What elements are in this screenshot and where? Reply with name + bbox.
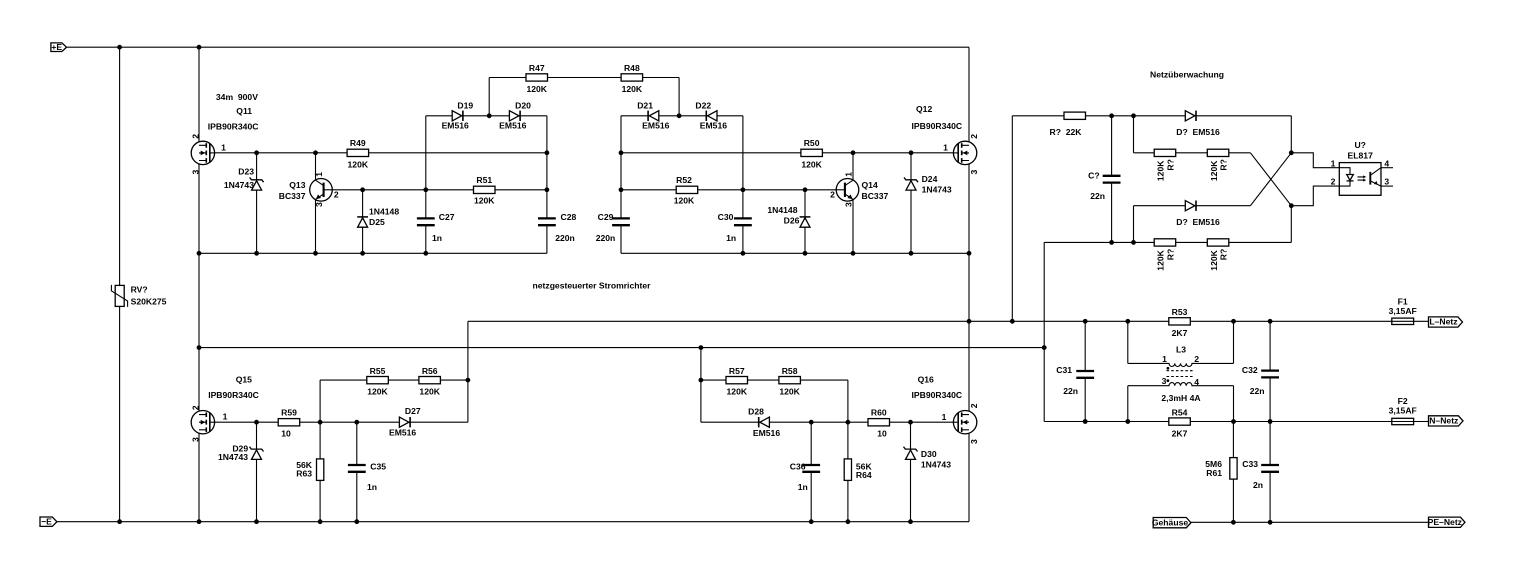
junction gate2R/R64 [846, 420, 851, 425]
svg-text:C27: C27 [439, 212, 455, 222]
svg-text:D24: D24 [922, 174, 938, 184]
mosfet Q15 [191, 411, 214, 434]
svg-text:1: 1 [942, 412, 947, 422]
svg-text:3: 3 [1162, 376, 1167, 386]
svg-text:1n: 1n [432, 233, 442, 243]
svg-text:netzgesteuerter Stromrichter: netzgesteuerter Stromrichter [533, 281, 652, 291]
junction -E/Q15S [197, 519, 202, 524]
capacitor C33 [1261, 465, 1279, 472]
diode D26 [800, 217, 811, 227]
svg-text:1: 1 [223, 412, 228, 422]
svg-text:C31: C31 [1056, 365, 1072, 375]
svg-text:R56: R56 [422, 366, 438, 376]
resistor R? 120K bottom-right [1207, 239, 1229, 246]
svg-text:C36: C36 [790, 462, 806, 472]
transistor Q13 [310, 179, 333, 202]
wire Q11 gate row [215, 152, 547, 154]
svg-text:R53: R53 [1172, 307, 1188, 317]
junction gateR/D24 [909, 150, 914, 155]
capacitor C? [1103, 176, 1121, 183]
svg-text:3,15AF: 3,15AF [1389, 406, 1417, 416]
junction gate/C28 node [545, 150, 550, 155]
svg-text:1N4743: 1N4743 [224, 180, 254, 190]
svg-text:2: 2 [190, 405, 200, 410]
svg-text:D23: D23 [238, 167, 254, 177]
fuse F1 [1392, 318, 1414, 324]
svg-text:120K: 120K [474, 196, 495, 206]
wire D24 branch [910, 153, 912, 254]
junction cross node X1 [1289, 150, 1294, 155]
wire crossing diagonal a [1250, 153, 1291, 206]
svg-text:+E: +E [51, 42, 62, 52]
svg-text:Q16: Q16 [918, 374, 934, 384]
junction railR/D26 [803, 251, 808, 256]
svg-text:L3: L3 [1176, 344, 1186, 354]
resistor R56 [419, 377, 441, 384]
wire opto pin4 stub [1381, 167, 1393, 169]
svg-text:22n: 22n [1063, 386, 1078, 396]
junction railR/D24 [909, 251, 914, 256]
junction gate2R/D30 [908, 420, 913, 425]
wire Q14 collector [852, 153, 854, 180]
junction out1/L3r [1231, 319, 1236, 324]
junction baseR/C30 [741, 187, 746, 192]
diode D21 [648, 111, 659, 121]
resistor R63 [317, 459, 324, 481]
svg-text:D21: D21 [637, 101, 653, 111]
junction out1/L3 [1125, 319, 1130, 324]
resistor R50 [801, 149, 823, 156]
svg-text:1: 1 [1331, 158, 1336, 168]
resistor R? 120K top-left [1154, 149, 1176, 156]
svg-text:EM516: EM516 [753, 428, 780, 438]
diode D28 [759, 417, 770, 427]
optocoupler U? LED [1339, 168, 1353, 186]
svg-text:120K: 120K [1156, 249, 1166, 270]
wire Q12-Q16 drain/source column [968, 47, 970, 522]
resistor R? 120K bottom-left [1154, 239, 1176, 246]
wire Q13 base row [332, 189, 547, 191]
resistor R61 [1230, 458, 1237, 480]
wire R57-R58 row [701, 379, 848, 381]
wire C28 column [546, 116, 548, 254]
inductor L3 phase dots [1167, 367, 1170, 370]
junction out2/R57 riser [699, 345, 704, 350]
svg-text:EM516: EM516 [442, 120, 469, 130]
svg-text:IPB90R340C: IPB90R340C [208, 122, 259, 132]
svg-text:R63: R63 [296, 469, 312, 479]
junction gateR/Q14C [851, 150, 856, 155]
svg-text:10: 10 [281, 428, 291, 438]
junction railL/D25 [360, 251, 365, 256]
wire C27 column [425, 116, 427, 254]
svg-text:4: 4 [1384, 158, 1389, 168]
mosfet Q12 [953, 141, 976, 164]
svg-text:120K: 120K [1209, 160, 1219, 181]
optocoupler U? light arrows [1358, 175, 1367, 181]
wire monitor 120K top row [1134, 116, 1251, 153]
junction base/C27 [423, 187, 428, 192]
svg-text:1: 1 [314, 172, 324, 177]
wire monitor left riser to N [1043, 242, 1045, 421]
svg-text:R64: R64 [856, 470, 872, 480]
svg-text:10: 10 [877, 428, 887, 438]
resistor R53 [1169, 318, 1191, 325]
net flag Gehaeuse [1152, 517, 1191, 528]
svg-text:Q15: Q15 [236, 375, 252, 385]
svg-text:120K: 120K [1209, 249, 1219, 270]
svg-text:2: 2 [334, 189, 339, 199]
wire Q16 gate row [701, 421, 953, 423]
svg-text:S20K275: S20K275 [131, 297, 167, 307]
svg-text:1: 1 [943, 143, 948, 153]
junction +E/RV2 [117, 45, 122, 50]
wire C? column [1111, 116, 1113, 243]
svg-text:Q11: Q11 [236, 106, 252, 116]
diode D? lower EM516 [1185, 201, 1196, 211]
svg-text:Q13: Q13 [289, 180, 305, 190]
svg-text:D19: D19 [457, 101, 473, 111]
wire R56 to output1 riser [467, 321, 469, 422]
wire +E rail [67, 46, 970, 48]
junction -E/R64 [846, 519, 851, 524]
svg-text:R48: R48 [624, 63, 640, 73]
junction monitor bot/diode [1131, 240, 1136, 245]
junction out2/Q15D [197, 345, 202, 350]
junction N/C32 [1268, 419, 1273, 424]
wire C29 column [620, 116, 622, 254]
svg-text:IPB90R340C: IPB90R340C [912, 390, 963, 400]
svg-text:2: 2 [1331, 177, 1336, 187]
svg-text:EM516: EM516 [389, 427, 416, 437]
svg-text:3: 3 [190, 437, 200, 442]
svg-text:R58: R58 [782, 366, 798, 376]
svg-text:IPB90R340C: IPB90R340C [208, 390, 259, 400]
svg-text:1N4148: 1N4148 [767, 205, 797, 215]
junction N/L3 [1125, 419, 1130, 424]
junction -E/RV2 [117, 519, 122, 524]
svg-text:EM516: EM516 [642, 120, 669, 130]
junction railL/Q11S [197, 251, 202, 256]
wire output2 drop to R57 [700, 348, 702, 423]
svg-text:EM516: EM516 [700, 120, 727, 130]
svg-text:120K: 120K [348, 160, 369, 170]
optocoupler U? box [1339, 163, 1381, 196]
transistor Q14 [836, 179, 859, 202]
svg-text:R55: R55 [370, 366, 386, 376]
junction base/D25 [360, 187, 365, 192]
inductor L3 core [1167, 371, 1195, 377]
junction railR/C30 [741, 251, 746, 256]
svg-text:R?: R? [1219, 249, 1229, 260]
svg-text:2: 2 [969, 134, 979, 139]
wire opto pin3 stub [1381, 185, 1393, 187]
mosfet Q16 [953, 411, 976, 434]
wire Q13 emitter [315, 200, 317, 254]
wire C33 column [1269, 422, 1271, 523]
svg-text:D? EM516: D? EM516 [1176, 127, 1220, 137]
inductor L3 winding 2 [1128, 383, 1234, 386]
wire C35 column [356, 422, 358, 522]
svg-text:120K: 120K [801, 160, 822, 170]
wire right cell bottom rail [621, 252, 969, 254]
svg-text:1N4743: 1N4743 [921, 459, 951, 469]
capacitor C27 [417, 218, 435, 225]
wire D23 branch [256, 153, 258, 254]
svg-text:R?: R? [1165, 159, 1175, 170]
wire monitor top line [1012, 116, 1291, 321]
zener D30 [904, 447, 918, 460]
junction +E/Q11 [197, 45, 202, 50]
resistor R49 [347, 149, 369, 156]
svg-text:3: 3 [314, 202, 324, 207]
svg-text:120K: 120K [1156, 160, 1166, 181]
junction D21-D22/R48 [677, 113, 682, 118]
svg-text:2n: 2n [1253, 480, 1263, 490]
svg-text:N–Netz: N–Netz [1429, 416, 1458, 426]
wire D30 branch [910, 422, 912, 522]
svg-text:3: 3 [969, 439, 979, 444]
wire D19-D20 row [426, 115, 547, 117]
junction monitor top/C? [1109, 113, 1114, 118]
svg-text:120K: 120K [622, 84, 643, 94]
junction -E/C35 [354, 519, 359, 524]
svg-text:R? 22K: R? 22K [1050, 127, 1083, 137]
svg-text:C33: C33 [1242, 459, 1258, 469]
svg-text:R60: R60 [871, 408, 887, 418]
diode D20 [509, 111, 520, 121]
svg-text:1n: 1n [798, 482, 808, 492]
wire Q15 gate row [215, 421, 468, 423]
wire D26 branch [804, 190, 806, 254]
svg-text:C32: C32 [1242, 365, 1258, 375]
resistor R52 [676, 186, 698, 193]
svg-text:R54: R54 [1172, 407, 1188, 417]
svg-text:R52: R52 [676, 175, 692, 185]
svg-text:3: 3 [844, 202, 854, 207]
resistor R57 [726, 377, 748, 384]
svg-text:−E: −E [41, 516, 52, 526]
svg-text:C28: C28 [561, 212, 577, 222]
svg-text:4: 4 [1194, 377, 1199, 387]
svg-text:U?: U? [1354, 140, 1365, 150]
wire R48 right drop [678, 78, 680, 116]
junction out1/C32 [1268, 319, 1273, 324]
svg-text:R59: R59 [281, 408, 297, 418]
svg-text:RV?: RV? [131, 284, 148, 294]
wire opto pin2 link [1291, 186, 1339, 206]
svg-text:Q14: Q14 [862, 180, 878, 190]
svg-text:Q12: Q12 [916, 104, 932, 114]
svg-text:R50: R50 [804, 138, 820, 148]
svg-text:R61: R61 [1206, 468, 1222, 478]
svg-text:D26: D26 [784, 215, 800, 225]
junction gateR/C29 node [619, 150, 624, 155]
wire Q14 emitter [852, 200, 854, 254]
net flag L-Netz [1429, 317, 1463, 328]
resistor R54 [1169, 418, 1191, 425]
svg-text:D27: D27 [405, 406, 421, 416]
svg-text:22n: 22n [1090, 191, 1105, 201]
wire opto pin1 link [1291, 153, 1339, 168]
svg-text:1N4743: 1N4743 [922, 185, 952, 195]
capacitor C30 [734, 218, 752, 225]
svg-text:1n: 1n [367, 482, 377, 492]
svg-text:1: 1 [844, 172, 854, 177]
zener D29 [250, 447, 264, 460]
svg-text:R51: R51 [476, 175, 492, 185]
svg-text:BC337: BC337 [862, 191, 889, 201]
resistor R48 [621, 74, 643, 81]
svg-text:IPB90R340C: IPB90R340C [912, 121, 963, 131]
junction gate2/C35 [354, 420, 359, 425]
capacitor C36 [802, 465, 820, 472]
mosfet Q11 [191, 141, 214, 164]
junction railL/D23 [254, 251, 259, 256]
wire output 1 to L-Netz [468, 320, 1429, 322]
wire C36 column [810, 422, 812, 522]
svg-text:D28: D28 [748, 406, 764, 416]
svg-text:3: 3 [190, 170, 200, 175]
svg-text:D22: D22 [695, 101, 711, 111]
wire R61 column [1232, 422, 1234, 523]
wire Q13 collector [315, 153, 317, 180]
wire D25 branch [362, 190, 364, 254]
junction R56/riser [466, 378, 471, 383]
junction -E/D29 [254, 519, 259, 524]
svg-text:D? EM516: D? EM516 [1176, 217, 1220, 227]
junction monitor top/120K [1131, 113, 1136, 118]
wire left cell bottom rail [199, 252, 547, 254]
junction railR/Q12S [967, 251, 972, 256]
capacitor C32 [1261, 371, 1279, 378]
wire -E rail [57, 521, 969, 523]
svg-text:120K: 120K [674, 196, 695, 206]
svg-text:3,15AF: 3,15AF [1389, 306, 1417, 316]
inductor L3 winding 1 [1128, 363, 1234, 366]
diode D22 [706, 111, 717, 121]
svg-text:C35: C35 [370, 461, 386, 471]
wire C31 column [1084, 321, 1086, 421]
svg-text:F2: F2 [1398, 396, 1408, 406]
wire R63 column [319, 380, 321, 522]
junction N/C31 [1083, 419, 1088, 424]
net flag PE-Netz [1428, 517, 1465, 528]
svg-text:D25: D25 [369, 217, 385, 227]
svg-text:120K: 120K [526, 84, 547, 94]
wire monitor lower diode row [1134, 206, 1251, 243]
net flag -E [40, 516, 57, 526]
svg-text:2: 2 [1194, 354, 1199, 364]
junction PE/C33 [1268, 520, 1273, 525]
svg-text:BC337: BC337 [279, 191, 306, 201]
svg-text:34m 900V: 34m 900V [216, 92, 258, 102]
diode D19 [452, 111, 463, 121]
junction railL/C27 [423, 251, 428, 256]
wire Q12 gate row [621, 152, 953, 154]
resistor R? 120K top-right [1207, 149, 1229, 156]
diode D? upper EM516 [1185, 111, 1196, 121]
wire Q11-Q15 drain/source column [198, 47, 200, 522]
zener D23 [250, 177, 264, 190]
svg-text:R49: R49 [350, 138, 366, 148]
svg-text:1N4148: 1N4148 [369, 206, 399, 216]
svg-text:L–Netz: L–Netz [1429, 317, 1457, 327]
wire C32 column [1269, 321, 1271, 421]
net flag N-Netz [1429, 416, 1464, 427]
svg-text:C30: C30 [718, 212, 734, 222]
wire L3 left risers [1127, 321, 1129, 421]
svg-text:2: 2 [830, 189, 835, 199]
svg-text:220n: 220n [596, 233, 616, 243]
junction gate2/R63 [318, 420, 323, 425]
wire L3 right risers [1233, 321, 1235, 421]
resistor R47 [526, 74, 548, 81]
resistor R58 [779, 377, 801, 384]
wire RV2 branch [119, 47, 121, 522]
zener D24 [904, 177, 918, 190]
svg-text:2: 2 [190, 134, 200, 139]
svg-text:1n: 1n [726, 233, 736, 243]
wire PE line [1191, 521, 1429, 523]
diode D27 [399, 417, 410, 427]
svg-text:C29: C29 [598, 212, 614, 222]
junction railL/Q13E [313, 251, 318, 256]
wire D29 branch [256, 422, 258, 522]
svg-text:PE–Netz: PE–Netz [1428, 517, 1462, 527]
net flag +E [51, 42, 67, 52]
wire output 2 row [199, 347, 1044, 349]
junction railR/Q14E [851, 251, 856, 256]
capacitor C35 [348, 465, 366, 472]
svg-text:120K: 120K [367, 387, 388, 397]
junction baseR/C29 [619, 187, 624, 192]
svg-text:120K: 120K [779, 387, 800, 397]
resistor R55 [367, 377, 389, 384]
junction baseR/D26 [803, 187, 808, 192]
wire N line to N-Netz [1044, 421, 1428, 423]
svg-text:R57: R57 [729, 366, 745, 376]
svg-text:2,3mH 4A: 2,3mH 4A [1161, 393, 1200, 403]
wire R64 column [847, 380, 849, 522]
svg-text:F1: F1 [1398, 297, 1408, 307]
resistor R59 [278, 419, 300, 426]
svg-text:Gehäuse: Gehäuse [1152, 517, 1189, 527]
junction -E/R63 [318, 519, 323, 524]
svg-text:1: 1 [1162, 354, 1167, 364]
wire Q14 base row [621, 189, 836, 191]
varistor RV2 [111, 285, 127, 307]
resistor R? 22K [1064, 112, 1086, 119]
svg-text:D20: D20 [515, 101, 531, 111]
junction gate2R/C36 [809, 420, 814, 425]
junction out1/C31 [1083, 319, 1088, 324]
junction out1/monitor [1010, 319, 1015, 324]
svg-text:2K7: 2K7 [1172, 428, 1188, 438]
capacitor C29 [612, 218, 630, 225]
svg-text:22n: 22n [1250, 386, 1265, 396]
junction -E/C36 [809, 519, 814, 524]
svg-text:R?: R? [1219, 159, 1229, 170]
fuse F2 [1392, 418, 1414, 424]
wire R47 left drop [488, 78, 490, 116]
svg-text:1: 1 [221, 143, 226, 153]
svg-text:3: 3 [1384, 177, 1389, 187]
svg-text:2K7: 2K7 [1172, 328, 1188, 338]
capacitor C31 [1076, 371, 1094, 378]
svg-text:120K: 120K [727, 387, 748, 397]
junction out2/monitor riser [1042, 345, 1047, 350]
